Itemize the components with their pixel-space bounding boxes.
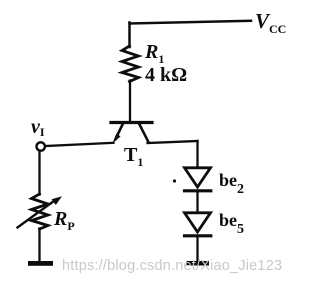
wire Vcc corner down to R1 (128, 23, 131, 48)
wire vI down to RP (38, 151, 40, 195)
label be2 (219, 170, 244, 198)
label vI (31, 116, 45, 140)
transistor T1 collector diagonal (139, 124, 148, 142)
label T1 (124, 144, 143, 170)
transistor T1 base bar (111, 121, 152, 124)
wire be2 to be5 (196, 191, 198, 214)
resistor RP (32, 194, 49, 229)
wire top horizontal to Vcc (130, 21, 252, 24)
watermark (62, 258, 282, 274)
wire be5 to ground (196, 236, 198, 262)
label Vcc (255, 9, 286, 37)
label 4 kOhm value (145, 64, 187, 87)
label R1 (145, 41, 164, 67)
wire down to diode be2 (196, 141, 198, 169)
transistor T1 emitter with arrow (113, 124, 124, 144)
label be5 (219, 210, 244, 238)
arrow through RP (18, 196, 63, 227)
resistor R1 (122, 46, 139, 82)
wire T1 collector to diode branch (148, 141, 198, 143)
diode be2 (185, 168, 211, 191)
diode be5 (185, 213, 211, 236)
wire R1 to T1 base (129, 81, 131, 123)
node vI circle (37, 142, 45, 150)
wire RP to ground (38, 229, 40, 262)
stray dot (173, 179, 176, 182)
label RP (54, 208, 75, 234)
ground left (28, 261, 53, 266)
wire emitter to vI node (45, 143, 113, 146)
ground right (187, 261, 210, 266)
